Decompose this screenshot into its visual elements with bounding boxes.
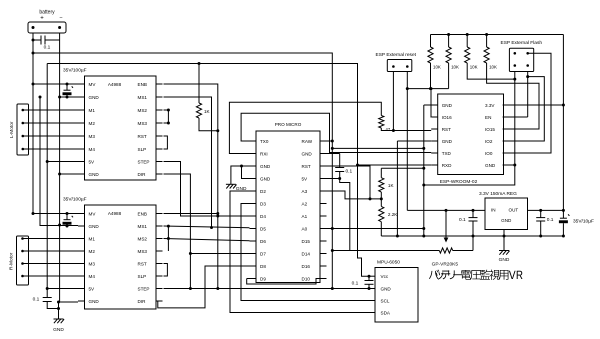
- svg-text:GND: GND: [442, 139, 453, 144]
- svg-text:A4988: A4988: [108, 211, 122, 216]
- svg-text:0.1: 0.1: [346, 169, 353, 175]
- svg-text:10K: 10K: [489, 64, 497, 69]
- svg-text:A1: A1: [302, 214, 308, 219]
- svg-text:A0: A0: [302, 226, 308, 231]
- svg-text:A2: A2: [302, 201, 308, 206]
- svg-text:A3: A3: [302, 189, 308, 194]
- svg-text:GND: GND: [89, 299, 100, 304]
- svg-text:MPU-6050: MPU-6050: [377, 260, 400, 266]
- svg-text:TX0: TX0: [260, 139, 269, 144]
- svg-text:ENB: ENB: [138, 82, 147, 87]
- svg-text:SDA: SDA: [381, 310, 391, 315]
- svg-text:1K: 1K: [204, 109, 211, 114]
- svg-text:10K: 10K: [470, 64, 478, 69]
- svg-text:TXD: TXD: [442, 151, 452, 156]
- svg-text:OUT: OUT: [509, 208, 519, 213]
- svg-text:0.1: 0.1: [547, 217, 554, 223]
- svg-text:MS1: MS1: [138, 224, 148, 229]
- svg-text:RAW: RAW: [302, 139, 313, 144]
- svg-text:MS3: MS3: [138, 121, 148, 126]
- svg-text:D15: D15: [302, 239, 311, 244]
- svg-text:D14: D14: [302, 251, 311, 256]
- svg-text:GND: GND: [260, 164, 271, 169]
- svg-text:STEP: STEP: [138, 286, 150, 291]
- svg-text:IO15: IO15: [485, 127, 495, 132]
- svg-text:ENB: ENB: [138, 211, 147, 216]
- svg-text:GND: GND: [89, 224, 100, 229]
- svg-text:M3: M3: [89, 134, 96, 139]
- svg-text:5V: 5V: [89, 159, 96, 164]
- svg-text:+: +: [40, 16, 44, 22]
- svg-text:RXI: RXI: [260, 151, 268, 156]
- svg-text:D4: D4: [260, 214, 266, 219]
- svg-text:RST: RST: [138, 134, 147, 139]
- svg-text:GND: GND: [442, 103, 453, 108]
- svg-text:PRO MICRO: PRO MICRO: [275, 122, 302, 127]
- svg-text:IO0: IO0: [485, 151, 493, 156]
- svg-text:35V/100µF: 35V/100µF: [63, 68, 87, 74]
- svg-text:GND: GND: [302, 151, 313, 156]
- svg-text:D5: D5: [260, 226, 266, 231]
- svg-text:SCL: SCL: [381, 298, 390, 303]
- svg-text:A4988: A4988: [108, 82, 122, 87]
- svg-text:SLP: SLP: [138, 274, 147, 279]
- svg-text:D3: D3: [260, 201, 266, 206]
- svg-text:D8: D8: [260, 264, 266, 269]
- svg-text:D9: D9: [260, 276, 266, 281]
- svg-text:M2: M2: [89, 121, 96, 126]
- svg-text:IN: IN: [491, 208, 496, 213]
- svg-text:GND: GND: [501, 218, 512, 223]
- svg-text:0.1: 0.1: [459, 217, 466, 223]
- svg-text:ESP-WROOM-02: ESP-WROOM-02: [440, 179, 478, 185]
- svg-text:35V/100µF: 35V/100µF: [63, 197, 87, 203]
- svg-text:MV: MV: [89, 211, 97, 216]
- svg-text:47: 47: [386, 127, 391, 132]
- svg-text:GND: GND: [53, 327, 64, 333]
- svg-text:GND: GND: [499, 257, 510, 263]
- svg-text:STEP: STEP: [138, 159, 150, 164]
- svg-text:10K: 10K: [433, 64, 441, 69]
- svg-text:L-Motor: L-Motor: [9, 121, 15, 138]
- svg-text:0.1: 0.1: [352, 281, 359, 287]
- svg-text:MV: MV: [89, 82, 97, 87]
- svg-text:MS2: MS2: [138, 108, 148, 113]
- svg-text:ESP External reset: ESP External reset: [376, 52, 417, 58]
- svg-text:−: −: [59, 16, 62, 22]
- svg-text:GP-VR20K5: GP-VR20K5: [432, 261, 459, 267]
- svg-text:M4: M4: [89, 147, 96, 152]
- svg-text:RST: RST: [138, 261, 147, 266]
- svg-text:GND: GND: [89, 172, 100, 177]
- svg-text:GND: GND: [485, 163, 496, 168]
- svg-text:IO16: IO16: [442, 115, 452, 120]
- svg-text:D16: D16: [302, 264, 311, 269]
- svg-text:ESP External Flash: ESP External Flash: [501, 40, 543, 46]
- svg-text:0.1: 0.1: [33, 297, 40, 303]
- svg-text:M1: M1: [89, 108, 96, 113]
- svg-text:D7: D7: [260, 251, 266, 256]
- svg-text:1K: 1K: [388, 183, 395, 188]
- svg-text:Vcc: Vcc: [381, 274, 389, 279]
- svg-text:3.3V 150mA REG: 3.3V 150mA REG: [479, 191, 517, 197]
- svg-text:D10: D10: [302, 276, 311, 281]
- svg-text:RST: RST: [302, 164, 311, 169]
- svg-text:D6: D6: [260, 239, 266, 244]
- svg-text:RXD: RXD: [442, 163, 452, 168]
- svg-text:RST: RST: [442, 127, 451, 132]
- svg-text:10K: 10K: [451, 64, 459, 69]
- svg-text:GND: GND: [260, 176, 271, 181]
- svg-text:DIR: DIR: [138, 172, 147, 177]
- svg-text:EN: EN: [485, 115, 491, 120]
- svg-text:M2: M2: [89, 249, 96, 254]
- svg-text:3.3V: 3.3V: [485, 103, 495, 108]
- svg-text:D2: D2: [260, 189, 266, 194]
- svg-text:GND: GND: [89, 95, 100, 100]
- svg-text:5V: 5V: [89, 286, 96, 291]
- svg-text:MS2: MS2: [138, 236, 148, 241]
- svg-text:M3: M3: [89, 261, 96, 266]
- svg-text:2.2K: 2.2K: [388, 212, 398, 217]
- svg-text:R-Motor: R-Motor: [9, 252, 15, 270]
- svg-text:GND: GND: [381, 286, 392, 291]
- svg-text:MS3: MS3: [138, 249, 148, 254]
- svg-text:MS1: MS1: [138, 95, 148, 100]
- svg-text:0.1: 0.1: [44, 45, 51, 51]
- svg-text:5V: 5V: [302, 176, 309, 181]
- svg-text:DIR: DIR: [138, 299, 147, 304]
- svg-text:35V/10µF: 35V/10µF: [573, 218, 594, 224]
- svg-text:IO2: IO2: [485, 139, 493, 144]
- svg-text:M1: M1: [89, 236, 96, 241]
- svg-text:SLP: SLP: [138, 147, 147, 152]
- svg-text:M4: M4: [89, 274, 96, 279]
